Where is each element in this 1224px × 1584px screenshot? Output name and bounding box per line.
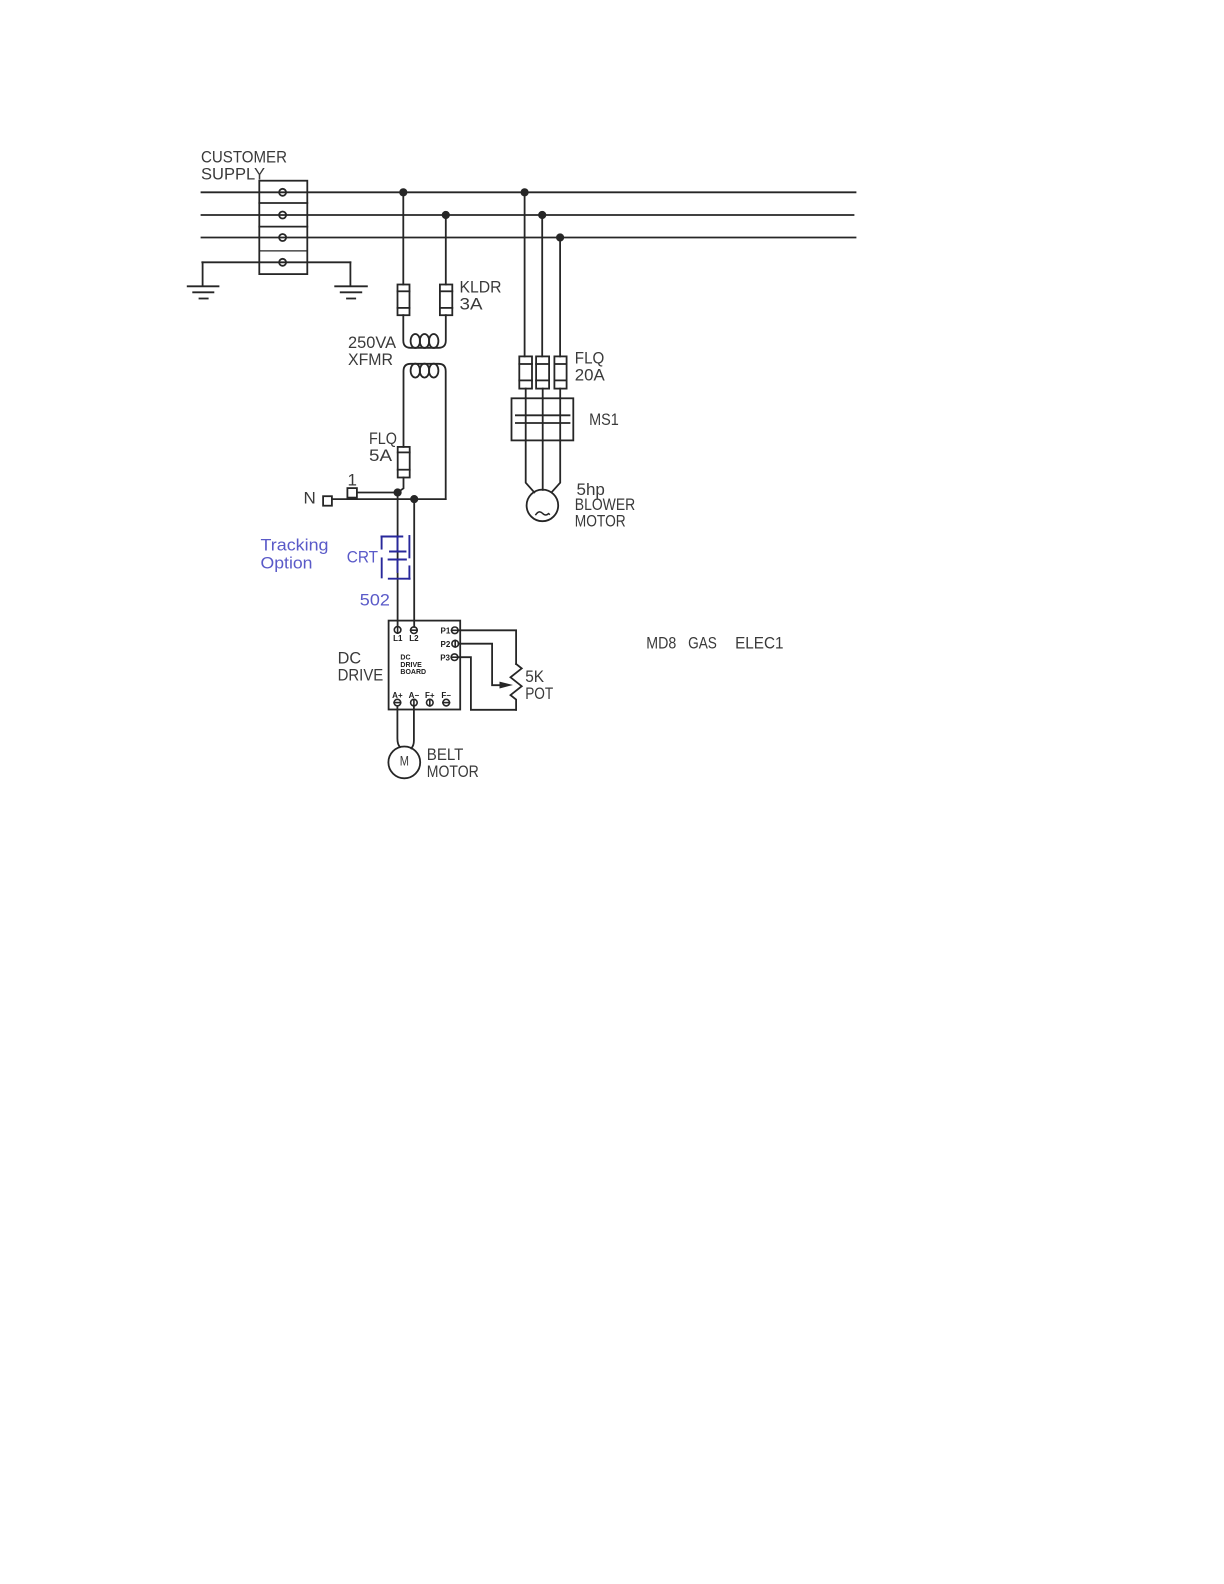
svg-text:MS1: MS1 xyxy=(589,410,619,429)
ground (left earth symbol) xyxy=(188,262,219,298)
svg-text:DC: DC xyxy=(400,655,410,662)
transformer T1 secondary winding xyxy=(404,364,446,500)
svg-text:BELT: BELT xyxy=(427,745,464,764)
svg-text:F−: F− xyxy=(441,691,451,700)
node junction on L2 at x=542 xyxy=(538,211,546,219)
transformer T1 250VA XFMR primary winding xyxy=(403,315,446,348)
svg-text:POT: POT xyxy=(525,684,553,703)
fuse F6 FLQ 20A (pole C) xyxy=(554,356,566,388)
fuse F2 KLDR 3A (right) xyxy=(440,285,452,316)
terminal A- of DC drive xyxy=(411,699,418,706)
node junction on L3 at x=560 xyxy=(556,233,564,241)
wire supply phase L3 xyxy=(202,237,856,239)
svg-text:L2: L2 xyxy=(409,634,419,643)
wire MS1 pole B to blower motor xyxy=(542,440,544,490)
motor M2 5hp BLOWER MOTOR circle xyxy=(527,490,559,522)
DC drive board U1 outline xyxy=(389,621,461,710)
wire fuse F3 to node 1 junction xyxy=(398,478,404,493)
fuse F5 FLQ 20A (pole B) xyxy=(536,356,549,388)
motor M1 BELT MOTOR circle xyxy=(388,747,420,779)
svg-text:20A: 20A xyxy=(575,366,606,385)
terminal L2 of DC drive xyxy=(411,627,418,634)
svg-text:CRT: CRT xyxy=(347,547,378,566)
terminal P2 of DC drive xyxy=(452,640,459,647)
pot wiper arrow xyxy=(500,682,514,689)
wire P1 to pot top xyxy=(458,630,516,664)
svg-text:Option: Option xyxy=(261,553,313,572)
svg-text:L1: L1 xyxy=(393,634,403,643)
svg-text:MD8: MD8 xyxy=(646,633,676,652)
wire MS1 pole A to blower motor xyxy=(526,440,535,492)
fuse F1 KLDR 3A (left) xyxy=(398,285,410,316)
svg-text:DC: DC xyxy=(338,648,362,667)
wire L2 drop to fuse F2 xyxy=(445,215,447,285)
wire supply phase L2 xyxy=(202,214,854,216)
wire fuse F5 to contactor MS1 xyxy=(542,389,544,399)
wire P2 to pot wiper xyxy=(459,644,501,686)
contactor MS1 contact bars xyxy=(516,415,570,423)
terminal A+ of DC drive xyxy=(394,699,401,706)
svg-text:P2: P2 xyxy=(441,640,451,649)
svg-text:ELEC1: ELEC1 xyxy=(735,633,783,652)
ground (right earth symbol) xyxy=(335,262,367,298)
wire fuse F6 to contactor MS1 xyxy=(559,389,561,399)
wire N line to transformer secondary xyxy=(332,498,446,500)
wire P3 to pot bottom xyxy=(458,657,516,710)
node junction on L1 at x=525 xyxy=(521,188,529,196)
svg-text:FLQ: FLQ xyxy=(575,348,605,367)
node junction on L1 at x=403 xyxy=(399,188,407,196)
svg-text:5A: 5A xyxy=(369,446,393,465)
svg-text:GAS: GAS xyxy=(688,633,717,652)
terminal P3 of DC drive xyxy=(451,654,458,661)
wire net L1 down to DC drive xyxy=(397,493,399,627)
fuse F4 FLQ 20A (pole A) xyxy=(519,356,532,388)
svg-text:SUPPLY: SUPPLY xyxy=(201,165,265,184)
node junction (L1 tap) xyxy=(394,488,402,496)
terminal node 1 (square) xyxy=(347,488,357,498)
svg-text:KLDR: KLDR xyxy=(460,278,502,297)
node junction on L2 at x=446 xyxy=(442,211,450,219)
wire L3 drop to fuse F6 xyxy=(559,238,561,357)
terminal block TB1 (customer supply) xyxy=(259,181,307,274)
capacitor CRT 502 tracking-option suppressor (blue) xyxy=(382,536,410,579)
svg-text:A−: A− xyxy=(409,691,420,700)
wire A- to belt motor xyxy=(411,706,414,748)
svg-text:A+: A+ xyxy=(392,691,403,700)
wire MS1 pole C to blower motor xyxy=(552,440,561,492)
wire net L2 down to DC drive xyxy=(413,499,415,627)
wire L2 drop to fuse F5 xyxy=(541,215,543,356)
node junction (L2 tap on N line) xyxy=(410,495,418,503)
svg-text:502: 502 xyxy=(360,591,390,610)
contactor MS1 outline xyxy=(512,398,574,440)
svg-text:XFMR: XFMR xyxy=(348,350,393,369)
potentiometer R1 5K POT resistive element xyxy=(511,664,522,710)
svg-text:P3: P3 xyxy=(440,654,450,663)
wire L1 drop to fuse F4 xyxy=(524,192,526,356)
wire L1 drop to fuse F1 xyxy=(402,192,404,284)
svg-text:1: 1 xyxy=(348,471,357,490)
wire supply phase L1 xyxy=(202,191,856,193)
terminal F- of DC drive xyxy=(443,699,450,706)
svg-text:F+: F+ xyxy=(425,691,435,700)
svg-text:N: N xyxy=(304,488,316,507)
svg-text:P1: P1 xyxy=(441,627,451,636)
terminal P1 of DC drive xyxy=(452,627,459,634)
svg-text:5K: 5K xyxy=(525,667,544,686)
fuse F3 FLQ 5A xyxy=(398,447,410,478)
svg-text:M: M xyxy=(400,754,409,769)
wire A+ to belt motor xyxy=(397,706,400,747)
wire fuse F4 to contactor MS1 xyxy=(525,389,527,399)
contactor MS1 pole wires xyxy=(526,398,561,440)
svg-text:MOTOR: MOTOR xyxy=(575,511,626,530)
svg-text:CUSTOMER: CUSTOMER xyxy=(201,147,287,166)
wire node1 square to junction xyxy=(357,492,398,494)
blower motor AC squiggle xyxy=(536,512,550,515)
svg-text:Tracking: Tracking xyxy=(261,536,329,555)
svg-text:DRIVE: DRIVE xyxy=(400,662,422,669)
svg-text:250VA: 250VA xyxy=(348,333,397,352)
wire ground bus xyxy=(202,261,350,263)
svg-text:3A: 3A xyxy=(460,295,484,314)
svg-text:MOTOR: MOTOR xyxy=(427,762,479,781)
terminal L1 of DC drive xyxy=(394,627,401,634)
terminal F+ of DC drive xyxy=(427,699,434,706)
svg-text:DRIVE: DRIVE xyxy=(338,666,384,685)
terminal node N (square) xyxy=(323,496,332,506)
svg-text:BOARD: BOARD xyxy=(400,669,426,676)
